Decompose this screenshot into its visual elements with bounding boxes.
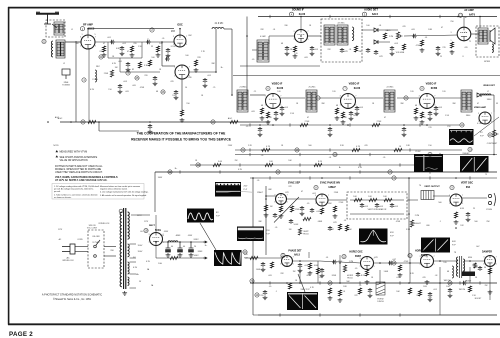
svg-text:P-P: P-P [390,236,394,238]
svg-text:350V: 350V [138,251,143,253]
svg-text:5: 5 [95,45,96,47]
terminal 9 [404,96,408,100]
waveform scope inset vert sawtooth [421,238,450,253]
wire stub S26 [269,176,271,179]
svg-text:.01: .01 [273,29,276,31]
svg-text:HEIGHT: HEIGHT [413,223,421,225]
svg-text:7: 7 [186,36,187,38]
resistor R20 IF cathode [341,112,344,118]
svg-text:4. Line voltage maintained at: 4. Line voltage maintained at 117 volts … [100,191,149,194]
fine tuning control [62,69,70,79]
svg-text:12BH7: 12BH7 [328,186,336,189]
wire integrator return [350,213,404,215]
svg-text:3.3M: 3.3M [406,229,411,231]
terminal 5 [250,279,254,283]
svg-text:1B3GT: 1B3GT [465,281,472,283]
capacitor C41 [263,290,267,295]
coil T7 HV secondary [128,212,130,239]
svg-text:470K: 470K [338,261,343,263]
svg-text:300V: 300V [158,177,163,179]
wire sync to phase det [245,257,282,259]
junction node J46 [455,227,457,229]
tube pin numbers V2 [173,36,187,46]
svg-text:117V: 117V [58,229,63,231]
terminal 7 [388,170,392,174]
wire pointer to video amp [474,117,499,136]
svg-text:117V: 117V [144,221,149,223]
svg-text:470: 470 [364,145,367,147]
B plus arrow 2 [203,257,207,259]
capacitor C6 mixer bypass [203,78,207,83]
capacitor C46 [320,268,324,273]
resistor R1 grid [102,46,105,52]
svg-text:5U4G: 5U4G [155,229,161,232]
resistor R16 IF grid [260,108,263,114]
wire vertical connector x300 [299,267,301,283]
wire stub S16 [199,163,201,166]
wire bottom heater rail [258,314,497,316]
capacitor C25 [300,206,304,211]
svg-text:PHASE DET: PHASE DET [288,250,302,253]
tube V7 second video IF 6AU6 [341,94,356,109]
junction node J47 [286,282,288,284]
junction node J37 [252,177,254,179]
wire sync sep to phase inv [287,198,317,200]
svg-text:21.9 MC: 21.9 MC [215,23,224,25]
svg-text:HV: HV [476,246,480,248]
svg-text:AUDIO DET: AUDIO DET [364,9,378,12]
svg-text:220: 220 [144,75,147,77]
svg-text:4.5MC: 4.5MC [260,36,266,38]
junction node J31 [167,241,169,243]
ground [279,214,284,218]
svg-text:YOKE: YOKE [486,209,493,211]
resistor R24 decoupling [262,148,270,151]
wire IF1 grid [250,94,266,96]
svg-text:270K: 270K [339,202,344,204]
junction node J8 [246,35,248,37]
wire B plus 140 [156,257,205,259]
ground [166,54,171,58]
wire stub S38 [319,313,321,316]
terminal 21 [488,133,492,137]
resistor R40 vert cathode [454,212,457,218]
wire stub S24 [359,170,361,173]
junction node J12 [259,124,261,126]
ground [428,298,433,302]
capacitor C51 [126,62,130,67]
schematic border left [8,7,10,325]
wire quad out [362,29,374,31]
resistor R62 [270,262,273,268]
svg-text:1.2M: 1.2M [349,261,354,263]
wire stub S7 [349,123,351,126]
resistor R53 sync grid [264,205,267,211]
wire boost rail [250,282,497,284]
junction node J6 [149,121,151,123]
electrolytic C34 [189,242,194,252]
vertical output transformer T6 [421,191,434,200]
svg-text:7: 7 [308,31,309,33]
wire stub S12 [249,153,251,156]
coil L3 antenna choke [51,41,53,57]
svg-text:AC: AC [66,257,69,260]
transformer T3 second IF [306,90,317,112]
svg-text:140V: 140V [193,255,199,257]
coil T9 sound takeoff transformer [257,40,269,62]
svg-text:22.3MC: 22.3MC [386,87,394,89]
transformer T5 video det input [461,90,472,112]
svg-text:.005: .005 [125,91,129,93]
svg-text:47: 47 [477,103,479,105]
terminal 23 [243,250,247,254]
wire trap to IF [224,28,232,30]
svg-text:negative unless otherwise stat: negative unless otherwise stated. [100,188,128,191]
svg-text:4.5MC: 4.5MC [477,123,483,125]
terminal 22 [42,39,46,43]
svg-text:220K: 220K [104,73,109,75]
svg-text:21.8MC: 21.8MC [239,87,247,89]
svg-text:INTERLOCK: INTERLOCK [62,260,74,262]
ground [425,280,430,284]
svg-text:6.8K: 6.8K [460,208,465,210]
numbered notes column 1 [54,185,98,199]
junction node J35 [321,177,323,179]
wire osc section rise [141,42,143,58]
svg-text:MIX: MIX [171,30,176,33]
svg-text:3: 3 [419,96,420,98]
ground [280,112,285,116]
tube V16 damper 6W4GT [485,256,496,267]
resistor R42 [308,263,311,269]
resistor R32 inverter load [320,208,323,214]
svg-text:1N64: 1N64 [466,115,471,117]
wire heater drop [119,58,121,72]
wire stub S8 [419,123,421,126]
waveform scope inset video at sync sep [215,182,252,197]
junction node J19 [299,260,301,262]
capacitor C12 quad [340,48,344,53]
svg-text:6AT6: 6AT6 [469,14,476,17]
svg-text:SYNC SEP: SYNC SEP [288,181,300,184]
transformer lead stub 5 [130,287,137,289]
svg-text:.005: .005 [353,115,357,117]
svg-text:680K: 680K [318,221,323,223]
capacitor C13 de-emphasis [390,46,394,51]
capacitor C36 [332,260,337,264]
svg-text:5: 5 [496,264,497,266]
resistor R49 [288,283,291,289]
svg-text:.005: .005 [304,57,308,59]
numbered notes column 2 [98,185,149,197]
svg-text:470: 470 [464,47,467,49]
svg-text:8: 8 [462,56,463,58]
svg-text:1. DC voltage readings taken: 1. DC voltage readings taken with VTVM, … [54,185,98,188]
wire twinlead [52,24,57,28]
wire mixer cathode drop [181,79,183,110]
svg-text:120K: 120K [295,209,300,211]
svg-text:820K: 820K [332,275,337,277]
svg-text:VIDEO IF: VIDEO IF [349,83,360,86]
wire stub S34 [399,281,401,284]
tube V17 audio output 6AT6 [457,27,471,41]
wire sound IF plate to quad [308,35,322,37]
svg-text:150: 150 [428,145,431,147]
capacitor C37 coupling [388,261,393,265]
wire osc plate lead [179,29,181,35]
wire stub S25 [429,170,431,173]
capacitor C35 [298,263,302,268]
coil L9 quad sec [337,25,348,45]
ground [428,117,433,121]
wire tuner to RF grid [65,41,81,43]
svg-text:5: 5 [94,34,95,36]
resistor R9 [230,120,238,123]
svg-text:RECEIVER MAKES IT POSSIBLE TO: RECEIVER MAKES IT POSSIBLE TO BRING YOU … [131,137,232,141]
terminal 2 [211,120,215,124]
wire sound IF feed [268,36,270,44]
ground [274,117,279,121]
svg-text:270: 270 [428,127,431,129]
capacitor C19 IF bypass [280,106,284,111]
resistor R19 IF cathode [266,112,269,118]
waveform scope inset vert deflection [214,250,242,266]
svg-text:6J6: 6J6 [188,77,191,79]
junction node J26 [299,282,301,284]
svg-text:A PHOTOFACT STANDARD NOTATION: A PHOTOFACT STANDARD NOTATION SCHEMATIC [42,294,102,297]
ground [328,133,333,137]
transformer lead stub 2 [130,257,137,259]
svg-text:220: 220 [99,51,102,53]
resistor R63 [138,62,141,68]
svg-text:3: 3 [451,32,452,34]
capacitor C26 [310,208,314,213]
svg-text:1: 1 [483,264,484,266]
ground [420,120,425,124]
vertical integrator dashed enclosure [347,192,407,219]
junction node J42 [272,124,274,126]
resistor R21 IF cathode [420,112,423,118]
wire vert yoke lead [462,197,487,199]
svg-text:2W: 2W [235,160,238,162]
transformer lead stub 3 [130,261,137,263]
resistor R7 AGC [110,70,113,77]
wire main B plus rail [155,171,497,173]
terminal 6 [266,86,270,90]
wire stub S3 [389,15,391,18]
svg-text:2W: 2W [485,285,488,287]
ground [310,52,315,56]
svg-text:3: 3 [483,256,484,258]
resistor R48 [338,290,341,296]
junction node J41 [426,124,428,126]
wire rectifier cathode [155,246,157,258]
junction node J39 [215,71,217,73]
junction node J23 [439,260,441,262]
capacitor C30 [328,226,332,231]
svg-text:100K: 100K [256,269,261,271]
svg-text:25.2MC: 25.2MC [308,87,316,89]
ground [398,273,403,277]
svg-text:.005: .005 [132,85,136,87]
coil T8 primary [457,257,459,276]
wire RF output to mixer grid [95,41,174,43]
svg-text:470K: 470K [404,261,409,263]
svg-text:47: 47 [307,117,309,119]
tube pin numbers V7 [340,96,357,107]
svg-text:5: 5 [355,105,356,107]
junction node J43 [347,124,349,126]
wire to video amp [493,95,495,112]
capacitor C43 ratio [374,50,378,55]
svg-text:ON-OFF: ON-OFF [92,236,100,238]
wire waveform pointer 3 [298,274,305,292]
svg-text:130V P-P: 130V P-P [300,289,310,291]
svg-text:8.2K: 8.2K [318,161,323,163]
svg-text:1: 1 [265,105,266,107]
svg-text:2.2M: 2.2M [415,215,420,217]
wire vertical connector x380 [379,270,381,283]
capacitor C38 [356,272,360,277]
capacitor C22 [258,127,262,132]
svg-text:.05: .05 [275,227,278,229]
svg-text:1M: 1M [115,67,118,69]
svg-text:3: 3 [340,96,341,98]
wire sync in [266,195,276,197]
svg-text:VALUE OR APPLICATION: VALUE OR APPLICATION [60,159,88,162]
svg-text:10M: 10M [428,29,432,31]
coil T7 primary winding [120,212,122,287]
wire stub S30 [469,176,471,179]
note alternate value [56,155,98,162]
wire stub S31 [269,281,271,284]
svg-text:BOOST: BOOST [475,298,482,300]
tube V6 first video IF 6AU6 [266,94,281,109]
svg-text:HOLD: HOLD [303,234,309,236]
junction node J48 [366,282,368,284]
wire stub S40 [399,313,401,316]
svg-text:4.7K: 4.7K [356,146,361,148]
ground [130,53,135,57]
svg-text:1W: 1W [293,271,296,273]
ground [148,130,153,134]
svg-text:33: 33 [151,46,153,48]
capacitor C49 [462,281,467,285]
junction node J14 [403,124,405,126]
svg-text:6SN7: 6SN7 [355,255,362,258]
svg-text:.01: .01 [349,49,352,51]
wire to horiz osc grid [320,261,361,263]
capacitor C52 [153,76,157,81]
quadrature detector dashed enclosure [321,19,362,62]
junction node J18 [252,257,254,259]
resistor R15 cathode [450,42,453,48]
junction node J49 [426,282,428,284]
svg-text:47: 47 [127,51,129,53]
terminal 12 [168,170,172,174]
tube V2B mixer 6J6 [175,65,189,79]
svg-text:25: 25 [440,56,442,58]
junction node J24 [469,260,471,262]
wire IF3 plate [435,97,462,99]
coil L12 width [452,266,454,278]
resistor R34 integrator [354,198,362,201]
diode video detector [477,93,481,97]
svg-text:220: 220 [260,295,263,297]
svg-text:1: 1 [280,264,281,266]
svg-text:5: 5 [374,266,375,268]
svg-text:8.2K: 8.2K [361,275,366,277]
terminal 19 [255,293,259,297]
resistor R28 [265,163,273,166]
svg-text:DISCH: DISCH [377,301,384,303]
svg-text:per volt.: per volt. [54,190,61,193]
wire B plus audio bus [258,16,497,18]
wire vertical connector x490 [489,267,491,300]
resistor R44 grid [398,265,401,271]
terminal 20 [468,147,472,151]
tube V13 phase detector 6AL5 [282,256,293,267]
svg-text:120: 120 [442,91,445,93]
svg-text:3: 3 [265,96,266,98]
ground [263,296,268,300]
wire stub S27 [309,176,311,179]
ground [174,96,179,100]
wire stub S11 [409,148,411,151]
resistor R25 decoupling [352,148,360,151]
ground [258,133,263,137]
svg-text:.047: .047 [330,229,334,231]
capacitor C27 integrator [360,203,364,208]
svg-text:.05: .05 [261,155,264,157]
capacitor C16 IF screen [274,111,278,116]
svg-text:AGC: AGC [55,116,60,119]
svg-text:7: 7 [374,258,375,260]
resistor R31 [290,206,293,212]
svg-text:450V: 450V [164,231,169,233]
diode V5B audio det [374,40,378,44]
capacitor C29 integrator [390,203,394,208]
wire waveform pointer 2 [200,223,216,250]
coil L8 quad pri [324,25,335,45]
svg-text:120: 120 [410,91,413,93]
schematic border top [8,7,500,9]
svg-text:CONTRAST: CONTRAST [487,142,498,145]
resistor R58 [408,288,411,294]
ground [333,214,338,218]
ground [308,271,313,275]
wire B plus output [163,241,206,243]
svg-text:1M: 1M [270,206,273,208]
ground [285,52,290,56]
coil L5 heater choke [95,70,97,82]
svg-text:1: 1 [315,203,316,205]
terminal 8 [314,186,318,190]
svg-text:7: 7 [491,113,492,115]
capacitor C10 [285,46,289,51]
terminal top of transformer [119,209,123,213]
ground [266,120,271,124]
svg-text:1: 1 [360,266,361,268]
svg-text:P-P: P-P [480,136,484,138]
wire AGC bus lower [99,130,139,132]
coil T7 bias winding [128,277,129,285]
svg-text:250V: 250V [228,145,233,147]
waveform scope inset vert blanking [187,209,214,223]
waveform scope inset video amp grid [449,129,474,145]
svg-text:1: 1 [449,203,450,205]
resistor R8 AGC filter [88,120,96,123]
